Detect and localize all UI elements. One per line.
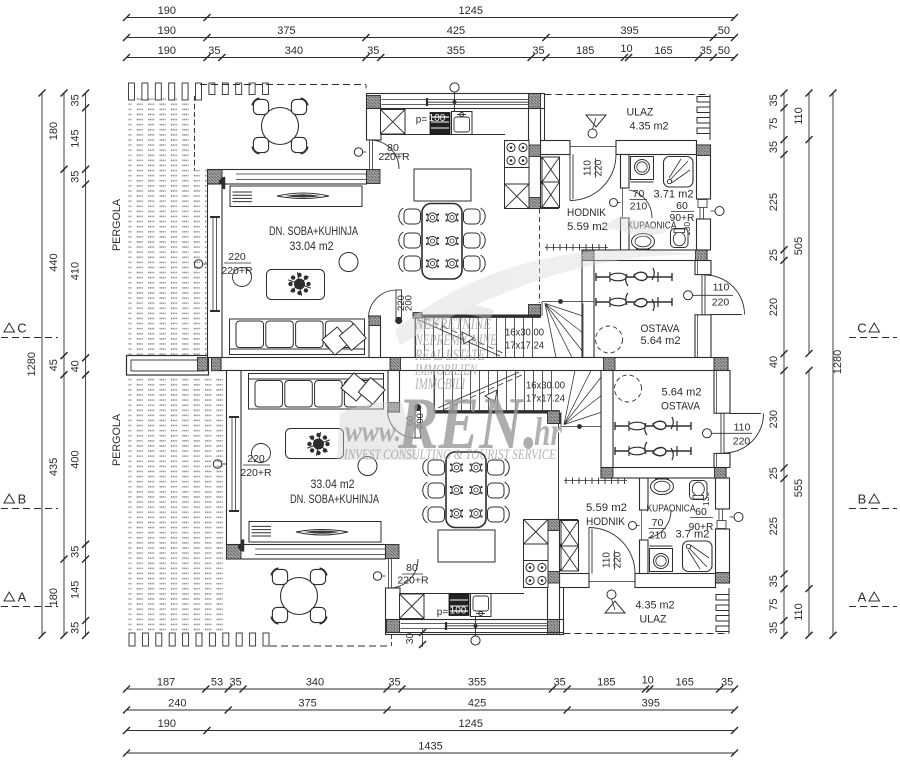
svg-text:220+R: 220+R bbox=[397, 575, 429, 587]
svg-text:355: 355 bbox=[447, 45, 465, 57]
svg-text:OSTAVA: OSTAVA bbox=[661, 401, 701, 413]
vent stack symbol bottom bbox=[471, 636, 480, 645]
terrace north wall lower bbox=[227, 545, 386, 560]
winder fan upper bbox=[541, 302, 543, 317]
pier E end bbox=[714, 358, 728, 371]
pier low bbox=[529, 198, 541, 209]
svg-text:35: 35 bbox=[388, 677, 400, 689]
black pivot symbol terrace door bbox=[219, 177, 225, 189]
handle bbox=[684, 291, 693, 300]
svg-text:165: 165 bbox=[654, 45, 672, 57]
svg-text:B: B bbox=[858, 492, 867, 507]
terrace south wall upper bbox=[208, 170, 367, 185]
svg-text:75: 75 bbox=[768, 598, 780, 610]
svg-text:5.59 m2: 5.59 m2 bbox=[586, 502, 627, 514]
pier SE bbox=[716, 573, 730, 584]
svg-text:1280: 1280 bbox=[26, 352, 38, 376]
svg-text:NEKRETNINE: NEKRETNINE bbox=[414, 316, 491, 333]
svg-text:110: 110 bbox=[583, 160, 594, 176]
svg-text:35: 35 bbox=[768, 622, 780, 634]
door 80 swing bbox=[370, 140, 399, 169]
svg-text:35: 35 bbox=[229, 677, 241, 689]
plant on coffee table upper bbox=[288, 272, 311, 296]
svg-text:45: 45 bbox=[48, 359, 60, 371]
vent stack symbol top bbox=[450, 83, 459, 92]
svg-text:A: A bbox=[858, 590, 867, 605]
svg-text:4.35 m2: 4.35 m2 bbox=[630, 121, 669, 133]
svg-text:505: 505 bbox=[793, 237, 805, 255]
svg-text:75: 75 bbox=[768, 118, 780, 130]
svg-text:400: 400 bbox=[70, 450, 82, 468]
svg-text:375: 375 bbox=[298, 698, 316, 710]
svg-text:OSTAVA: OSTAVA bbox=[641, 323, 681, 335]
living room west wall upper w/ window 220 bbox=[208, 184, 223, 358]
svg-text:220+R: 220+R bbox=[240, 467, 272, 479]
svg-text:3.7 m2: 3.7 m2 bbox=[676, 529, 710, 541]
svg-text:395: 395 bbox=[642, 698, 660, 710]
svg-text:ULAZ: ULAZ bbox=[640, 614, 667, 626]
svg-text:100: 100 bbox=[429, 113, 446, 124]
svg-text:190: 190 bbox=[158, 45, 176, 57]
svg-text:210: 210 bbox=[630, 201, 648, 213]
party wall between units bbox=[221, 358, 728, 371]
svg-text:35: 35 bbox=[768, 575, 780, 587]
dashed landing edge lower bbox=[558, 437, 560, 520]
bath north wall lower bbox=[601, 468, 726, 479]
svg-text:180: 180 bbox=[48, 122, 60, 140]
svg-text:40: 40 bbox=[768, 356, 780, 368]
svg-text:PERGOLA: PERGOLA bbox=[111, 198, 123, 251]
living room west wall lower w/ window 220 bbox=[227, 371, 242, 545]
svg-text:220: 220 bbox=[712, 297, 730, 309]
ostava door swing bbox=[705, 275, 745, 315]
ostava east wall upper + door 110/220 bbox=[695, 261, 711, 275]
svg-text:220: 220 bbox=[733, 436, 751, 448]
svg-text:5.64 m2: 5.64 m2 bbox=[662, 387, 702, 399]
svg-text:110: 110 bbox=[602, 552, 613, 568]
hodnik-bath divider upper bbox=[621, 155, 630, 189]
svg-text:220: 220 bbox=[228, 251, 246, 263]
svg-text:200: 200 bbox=[404, 295, 415, 311]
svg-text:1245: 1245 bbox=[459, 718, 483, 730]
stair wall thick bbox=[415, 315, 541, 318]
pergola dotted paving bbox=[128, 96, 195, 170]
ostava west wall upper bbox=[582, 261, 594, 358]
lower unit furniture (mirrored) bbox=[249, 373, 713, 619]
pergola dashed boundary (top terrace) bbox=[194, 96, 196, 170]
kitchen west wall w/ door 80/220+R bbox=[367, 109, 382, 141]
entrance arrow lower bbox=[605, 601, 625, 613]
radiator ticks hodnik lower bbox=[564, 480, 627, 482]
svg-text:1245: 1245 bbox=[459, 5, 483, 17]
svg-text:16x30.00: 16x30.00 bbox=[505, 327, 544, 339]
svg-text:DN. SOBA+KUHINJA: DN. SOBA+KUHINJA bbox=[290, 494, 379, 506]
svg-text:p=: p= bbox=[416, 115, 428, 126]
svg-text:INVEST CONSULTING & TOURIST SE: INVEST CONSULTING & TOURIST SERVICE bbox=[343, 447, 556, 463]
ledge line + 30 dim bbox=[386, 620, 388, 633]
svg-text:355: 355 bbox=[468, 677, 486, 689]
pier NE bbox=[697, 145, 711, 156]
hodnik north wall w/ entrance door bbox=[541, 141, 571, 155]
hodnik/kitchen dividing wall upper bbox=[529, 109, 541, 209]
svg-text:KUPAONICA: KUPAONICA bbox=[647, 503, 696, 515]
pier mid bbox=[529, 145, 541, 157]
svg-text:110: 110 bbox=[713, 282, 730, 294]
pier living NE low bbox=[388, 403, 400, 413]
svg-text:35: 35 bbox=[208, 45, 220, 57]
door handle circle 80 bbox=[354, 148, 362, 156]
planter / low wall between terraces bbox=[127, 356, 209, 376]
bath door swing 70 bbox=[629, 190, 652, 218]
svg-text:50: 50 bbox=[718, 45, 730, 57]
east exterior wall upper bbox=[697, 145, 711, 199]
entrance arrow upper bbox=[586, 115, 606, 127]
pier stair W bbox=[390, 358, 401, 371]
svg-text:110: 110 bbox=[793, 603, 805, 621]
pier at stair wall bbox=[529, 305, 541, 318]
pier bottom wall bbox=[548, 620, 560, 635]
dashed opening below bbox=[539, 209, 541, 304]
svg-text:33.04 m2: 33.04 m2 bbox=[311, 479, 355, 491]
svg-text:220: 220 bbox=[247, 453, 265, 465]
pier bbox=[582, 250, 594, 261]
svg-text:17x17.24: 17x17.24 bbox=[505, 340, 544, 352]
dimension block: top rows bbox=[127, 17, 735, 19]
circle at window label bbox=[233, 268, 252, 287]
svg-text:ULAZ: ULAZ bbox=[627, 107, 654, 119]
svg-text:375: 375 bbox=[277, 25, 295, 37]
svg-text:230: 230 bbox=[768, 410, 780, 428]
svg-text:A: A bbox=[18, 590, 27, 605]
svg-text:www.: www. bbox=[345, 415, 401, 448]
entrance steps upper bbox=[697, 97, 710, 103]
svg-text:410: 410 bbox=[70, 262, 82, 280]
svg-text:DN. SOBA+KUHINJA: DN. SOBA+KUHINJA bbox=[269, 226, 358, 238]
stair door upper (60/200) bbox=[396, 290, 402, 318]
bath door handle bbox=[610, 199, 618, 207]
top dashed terrace edge bbox=[200, 84, 366, 86]
section markers A B C bbox=[4, 323, 15, 332]
pier at planter end bbox=[198, 358, 208, 371]
east exterior wall lower bbox=[716, 529, 730, 583]
svg-text:35: 35 bbox=[721, 677, 733, 689]
svg-text:3.71 m2: 3.71 m2 bbox=[654, 189, 694, 201]
svg-text:425: 425 bbox=[468, 698, 486, 710]
svg-text:190: 190 bbox=[158, 5, 176, 17]
svg-text:190: 190 bbox=[158, 718, 176, 730]
hodnik south wall lower w/ door bbox=[560, 574, 590, 588]
svg-text:5.64 m2: 5.64 m2 bbox=[641, 335, 681, 347]
svg-text:70: 70 bbox=[652, 517, 664, 529]
svg-text:340: 340 bbox=[285, 45, 303, 57]
svg-text:1280: 1280 bbox=[832, 350, 844, 374]
svg-text:180: 180 bbox=[48, 588, 60, 606]
svg-text:220+R: 220+R bbox=[221, 265, 253, 277]
pier living SE bbox=[369, 316, 381, 326]
svg-text:240: 240 bbox=[168, 698, 186, 710]
svg-text:185: 185 bbox=[597, 677, 615, 689]
svg-text:555: 555 bbox=[793, 479, 805, 497]
pier bottom-left corner bbox=[386, 620, 400, 633]
pier kitchen wall bottom bbox=[367, 170, 381, 184]
stair direction diagonals bbox=[419, 320, 500, 356]
svg-text:33.04 m2: 33.04 m2 bbox=[290, 241, 334, 253]
svg-text:25: 25 bbox=[768, 467, 780, 479]
svg-text:165: 165 bbox=[676, 677, 694, 689]
living room NE wall lower bbox=[388, 371, 400, 413]
svg-text:187: 187 bbox=[157, 677, 175, 689]
svg-text:80: 80 bbox=[406, 562, 418, 574]
svg-text:35: 35 bbox=[532, 45, 544, 57]
watermark text bbox=[343, 316, 562, 465]
window marker circle bbox=[194, 260, 202, 268]
svg-text:440: 440 bbox=[48, 253, 60, 271]
svg-text:C: C bbox=[17, 321, 26, 336]
upper unit furniture bbox=[252, 98, 307, 153]
handle outside bbox=[715, 207, 724, 216]
svg-text:425: 425 bbox=[447, 25, 465, 37]
pier terrace wall W end low bbox=[227, 545, 242, 560]
radiator ticks hodnik bbox=[545, 247, 608, 249]
svg-text:1435: 1435 bbox=[418, 741, 442, 753]
svg-text:C: C bbox=[857, 321, 866, 336]
svg-text:60: 60 bbox=[676, 200, 688, 212]
svg-text:435: 435 bbox=[48, 458, 60, 476]
svg-text:145: 145 bbox=[70, 129, 82, 147]
svg-text:B: B bbox=[18, 492, 27, 507]
ostava east wall lower + door 110/220 bbox=[714, 371, 730, 414]
window jamb bbox=[426, 98, 428, 106]
svg-text:225: 225 bbox=[768, 193, 780, 211]
svg-text:70: 70 bbox=[633, 188, 645, 200]
svg-text:35: 35 bbox=[367, 45, 379, 57]
svg-text:220: 220 bbox=[768, 298, 780, 316]
svg-text:4.35 m2: 4.35 m2 bbox=[636, 600, 675, 612]
stair wall thick low bbox=[434, 410, 560, 413]
hodnik/kitchen dividing wall lower bbox=[548, 520, 560, 620]
pier kitchen wall top low bbox=[386, 545, 400, 559]
hodnik-bath divider lower bbox=[640, 540, 649, 574]
top wall band kitchen part bbox=[367, 94, 545, 109]
pier top-left corner bbox=[367, 96, 381, 109]
winder fan lower bbox=[560, 412, 562, 427]
svg-text:190: 190 bbox=[158, 25, 176, 37]
door 110/220 swing into hodnik bbox=[570, 146, 616, 148]
bottom dashed terrace edge bbox=[270, 645, 391, 647]
svg-text:35: 35 bbox=[768, 141, 780, 153]
svg-text:50: 50 bbox=[718, 25, 730, 37]
pier at party wall W end bbox=[212, 358, 223, 371]
svg-text:10: 10 bbox=[642, 675, 654, 687]
svg-text:HODNIK: HODNIK bbox=[567, 207, 607, 219]
svg-text:340: 340 bbox=[306, 677, 324, 689]
pergola posts top row bbox=[129, 83, 135, 100]
svg-text:40: 40 bbox=[70, 360, 82, 372]
svg-text:35: 35 bbox=[700, 45, 712, 57]
door leaf 90 bbox=[698, 200, 707, 208]
svg-text:395: 395 bbox=[620, 25, 638, 37]
svg-text:35: 35 bbox=[768, 94, 780, 106]
svg-text:PERGOLA: PERGOLA bbox=[111, 413, 123, 466]
pier top wall at hodnik wall bbox=[529, 94, 541, 109]
pier terrace wall W end bbox=[208, 170, 223, 185]
door leaf 110 bbox=[701, 275, 703, 315]
svg-text:30: 30 bbox=[405, 633, 416, 645]
ostava west wall lower bbox=[601, 371, 613, 468]
pier ostava W bbox=[604, 358, 616, 371]
svg-text:100: 100 bbox=[450, 606, 467, 617]
svg-text:25: 25 bbox=[768, 249, 780, 261]
svg-text:145: 145 bbox=[70, 581, 82, 599]
svg-text:35: 35 bbox=[70, 622, 82, 634]
ULAZ dashed edge bbox=[545, 94, 711, 96]
ULAZ upper porch bbox=[544, 94, 546, 141]
svg-text:210: 210 bbox=[649, 530, 667, 542]
stair door lower (60/200) bbox=[415, 411, 421, 439]
svg-text:185: 185 bbox=[576, 45, 594, 57]
dimension block: right columns bbox=[783, 93, 785, 635]
pier bbox=[696, 250, 708, 261]
watermark: grey logo swoosh bbox=[337, 216, 700, 460]
svg-text:110: 110 bbox=[793, 107, 805, 125]
ULAZ lower porch bbox=[563, 588, 565, 635]
bath south wall upper bbox=[582, 250, 707, 261]
svg-text:35: 35 bbox=[70, 94, 82, 106]
svg-text:60: 60 bbox=[695, 506, 707, 518]
svg-text:35: 35 bbox=[554, 677, 566, 689]
svg-text:220+R: 220+R bbox=[378, 151, 410, 163]
living room SE wall upper bbox=[369, 316, 381, 358]
dimension block: left columns bbox=[41, 93, 43, 635]
pergola posts bottom row bbox=[129, 633, 135, 646]
svg-text:p=: p= bbox=[437, 607, 449, 618]
door leaf 110 low bbox=[720, 413, 722, 453]
kitchen west wall lower w/ door 80/220+R bbox=[386, 588, 401, 620]
bottom exterior wall bbox=[386, 620, 564, 635]
svg-text:110: 110 bbox=[734, 422, 751, 434]
svg-text:225: 225 bbox=[768, 517, 780, 535]
svg-text:10: 10 bbox=[620, 43, 632, 55]
svg-text:HODNIK: HODNIK bbox=[586, 516, 626, 528]
svg-text:53: 53 bbox=[211, 677, 223, 689]
svg-text:35: 35 bbox=[70, 171, 82, 183]
dimension block: bottom rows bbox=[127, 688, 735, 690]
svg-text:35: 35 bbox=[70, 546, 82, 558]
